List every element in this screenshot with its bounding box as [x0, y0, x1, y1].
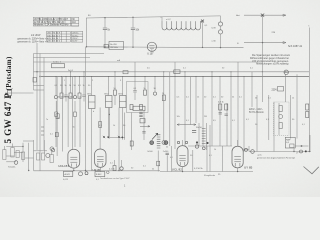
- wire x249 drop: [248, 146, 250, 152]
- electrolytic can a: [195, 145, 198, 148]
- wire drop x135: [134, 62, 136, 90]
- node bus y76 x135: [134, 76, 135, 77]
- tuner box: [109, 42, 124, 50]
- resistor R-l5: [42, 153, 45, 160]
- transformer blob: [278, 87, 284, 92]
- node bus y76 x203: [202, 76, 203, 77]
- grid cap node: [162, 141, 166, 145]
- wire x210: [209, 125, 211, 172]
- wire x290: [290, 95, 292, 139]
- wire drop D1: [55, 77, 57, 96]
- capacitor Cd3: [64, 95, 67, 97]
- capacitor Ce1: [55, 112, 58, 117]
- node l x23 y146: [22, 146, 23, 147]
- avc dimension line: [177, 124, 196, 126]
- node bus2 x40: [39, 76, 40, 77]
- node bus y71 x262.3: [262, 71, 263, 72]
- node el a: [196, 141, 198, 143]
- wire drop left end top rail: [86, 18, 88, 47]
- wire mains-ant drop: [9, 96, 11, 100]
- wire x171 drop: [171, 146, 173, 172]
- enclosure rectifier dashed: [274, 102, 290, 136]
- node bus y76 x212: [211, 76, 212, 77]
- svg-text:U 107: U 107: [147, 53, 154, 55]
- wire x113 drop: [114, 160, 116, 166]
- tube V1 UCH81: [68, 149, 80, 168]
- svg-text:UCL 82: UCL 82: [172, 168, 182, 172]
- wire x254: [256, 95, 258, 152]
- capacitor Ce2: [74, 112, 77, 117]
- svg-text:1k: 1k: [83, 85, 85, 87]
- svg-text:5k: 5k: [65, 85, 67, 87]
- wire tubeB grid feed: [99, 108, 101, 150]
- node heater rail x202.5: [202, 47, 203, 48]
- svg-text:5k: 5k: [152, 169, 154, 171]
- node bus y76 x196: [195, 76, 196, 77]
- node bus y76 x175: [174, 76, 175, 77]
- wire V3 cathode: [182, 167, 184, 172]
- node bus y76 x244: [243, 76, 244, 77]
- node antenna junction: [261, 14, 264, 17]
- wire left col d: [43, 58, 45, 151]
- wire x238: [237, 62, 239, 146]
- wire IFT3 out: [122, 108, 124, 140]
- IF transformer IFT3: [120, 96, 127, 108]
- tube V4 electrodes: [234, 157, 241, 167]
- tube V2 electrodes: [97, 157, 104, 166]
- wire x109 link: [108, 108, 110, 138]
- wire x250: [251, 72, 253, 107]
- wire x80 long: [79, 96, 81, 147]
- wire V2 cathode: [99, 167, 101, 171]
- wire x51.8 stub: [51, 151, 53, 156]
- wire y146 segment: [188, 145, 232, 147]
- node bus y71 x212: [211, 71, 212, 72]
- wire drop D3: [65, 77, 67, 95]
- resistor R-V2k: [95, 172, 105, 177]
- node supply x309: [309, 151, 310, 152]
- svg-text:Bv 410: Bv 410: [110, 44, 117, 46]
- node l x28 y170: [28, 170, 29, 171]
- wire heater rail y47: [86, 46, 244, 49]
- fuse Si bar: [284, 71, 288, 73]
- node top V3 b: [185, 141, 187, 143]
- node y146 x301: [301, 145, 303, 147]
- wire drop D7: [83, 72, 85, 95]
- node j4: [121, 137, 123, 139]
- wire left link y85.5: [34, 85, 45, 87]
- svg-text:190 165 11 7: 190 165 11 7: [47, 35, 60, 37]
- wire y146 right stub: [295, 145, 308, 147]
- svg-text:50 Hz Allstrom: 50 Hz Allstrom: [249, 111, 264, 114]
- resistor R-leftcol-box: [33, 78, 37, 83]
- lamp La1: [218, 22, 222, 26]
- node bus y76 x220: [219, 76, 220, 77]
- wire drop D4: [70, 72, 72, 93]
- node bus y71 x70.5: [70, 71, 71, 72]
- resistor R-x115: [114, 90, 117, 95]
- node j2: [107, 136, 109, 138]
- svg-text:220V: 220V: [272, 90, 278, 92]
- coil L-TBout: [107, 171, 110, 174]
- node heater rail x105: [104, 46, 105, 47]
- svg-text:1k: 1k: [292, 98, 294, 100]
- node bus y76 x61.5: [61, 76, 62, 77]
- wire earth lower: [244, 42, 283, 44]
- wire IFT1 out: [91, 109, 93, 171]
- wire drop x155: [154, 77, 156, 93]
- node heater rail x86.5: [86, 46, 87, 47]
- fuse Si: [284, 70, 288, 74]
- resistor R-x225: [225, 104, 228, 110]
- wire IFT3 feed: [122, 77, 124, 96]
- wire x68.1 long: [67, 96, 69, 147]
- wire drop D7 lower: [83, 97, 85, 101]
- wire x206.5: [206, 123, 208, 150]
- wire l-col x23: [22, 143, 24, 162]
- node bus y76 x79.5: [79, 76, 80, 77]
- wire bus y71.8: [34, 71, 310, 73]
- node bus y71 x163.8: [163, 71, 164, 72]
- svg-text:110V~: 110V~: [72, 41, 79, 43]
- wire antenna junction drop: [262, 15, 264, 72]
- node V4 out: [245, 148, 248, 151]
- switch box inner: [290, 144, 294, 148]
- node j1: [103, 136, 105, 138]
- wire x220: [219, 77, 221, 147]
- coil L-l3: [51, 149, 54, 152]
- wire rail y62: [34, 61, 263, 63]
- coupling box: [133, 106, 145, 110]
- resistor R-mid1: [113, 166, 116, 171]
- wire long x85.5: [85, 47, 87, 171]
- resistor R-V1k: [64, 171, 73, 176]
- tube U107 inner electrodes: [149, 46, 154, 51]
- node bus y71 x37: [36, 71, 37, 72]
- svg-text:1k: 1k: [214, 149, 216, 151]
- svg-text:5k: 5k: [232, 97, 234, 99]
- svg-text:0,025: 0,025: [63, 179, 69, 181]
- wire drop x115: [114, 72, 116, 90]
- wire bus y76.5: [41, 76, 309, 78]
- resistor R-in-box2: [140, 105, 143, 110]
- wire V4 top feed: [237, 140, 239, 146]
- wire rail y53.5: [34, 53, 105, 55]
- IFT2 midline: [106, 101, 113, 103]
- wire V4 cathode: [237, 168, 239, 172]
- terminal supply b: [300, 150, 303, 153]
- wire l-col x12.5 up: [12, 144, 14, 148]
- svg-text:200 170 12 8: 200 170 12 8: [47, 33, 61, 35]
- tube V3 UCL82: [177, 146, 188, 167]
- svg-text:B 842: B 842: [96, 174, 102, 176]
- node bottom x182: [182, 171, 183, 172]
- resistor Rd2: [60, 93, 63, 98]
- capacitor C-x55mid: [55, 133, 58, 137]
- wire drop D3 lower: [65, 97, 67, 101]
- capacitor C-couple1: [139, 112, 142, 114]
- node bottom x119: [118, 170, 119, 171]
- svg-text:2k: 2k: [69, 85, 71, 87]
- wire lamp chain top: [220, 16, 222, 22]
- node bus y76 x70.5: [70, 76, 71, 77]
- resistor R-series-rail: [174, 70, 180, 74]
- svg-text:Klangblende: Klangblende: [204, 175, 216, 177]
- wire drop x56 down: [55, 117, 57, 148]
- wire x62.6 long: [62, 77, 64, 152]
- node bus1 x37: [36, 71, 37, 72]
- node bus y76 x91.7: [91, 76, 92, 77]
- IF transformer IFT1: [89, 96, 96, 109]
- resistor R-l4: [37, 153, 40, 160]
- wire l-col x44.3: [43, 140, 45, 153]
- earth arrow lower: [283, 42, 286, 44]
- wire drop x163.8: [163, 72, 165, 95]
- wire x294: [293, 149, 295, 152]
- node supply x305.8: [305, 150, 307, 152]
- wire x262 lower: [261, 72, 263, 102]
- tube V1 electrodes: [70, 157, 77, 167]
- tube V2 UF89: [95, 149, 106, 167]
- variable capacitor gang a: [150, 141, 154, 145]
- wire x121 drop: [121, 160, 123, 167]
- svg-text:1k: 1k: [197, 97, 199, 99]
- tube V3 electrodes: [179, 156, 185, 166]
- node x109 y114: [109, 114, 110, 115]
- wire V1 cathode: [73, 168, 75, 170]
- coil L-det: [85, 172, 88, 175]
- wire x207: [206, 146, 208, 172]
- wire link y137.5: [109, 137, 125, 139]
- wire bottom supply rail: [249, 151, 311, 153]
- svg-text:Abweichungen ±10% zulässig: Abweichungen ±10% zulässig: [256, 63, 289, 66]
- svg-text:2k: 2k: [162, 93, 164, 95]
- svg-text:5k: 5k: [144, 88, 146, 90]
- svg-text:UCH81 UF89 UCL82 UY85 U107: UCH81 UF89 UCL82 UY85 U107: [34, 19, 69, 21]
- wire x203: [202, 77, 204, 147]
- IFT3 midline: [120, 101, 127, 103]
- svg-text:180 155 10 6: 180 155 10 6: [47, 41, 61, 43]
- capacitor C-el ladder: [202, 129, 206, 144]
- svg-text:Tonabn.: Tonabn.: [8, 167, 16, 169]
- capacitor C2: [131, 28, 135, 29]
- resistor R-on-rail: [104, 45, 108, 48]
- wire x190.5: [190, 77, 192, 125]
- node bus y71 x185: [184, 71, 185, 72]
- capacitor C-couple2: [139, 115, 142, 117]
- resistor R-x163: [162, 95, 165, 101]
- capacitor Cd7: [82, 95, 85, 97]
- resistor R-x219: [219, 104, 222, 110]
- node j3: [118, 136, 120, 138]
- svg-text:452 kHz: 452 kHz: [110, 47, 118, 49]
- node top rail C2: [132, 17, 133, 18]
- svg-text:Tonabnehmer nur bei Type P 647: Tonabnehmer nur bei Type P 647: [100, 178, 130, 180]
- resistor R-l3: [22, 152, 25, 160]
- wire x185: [184, 72, 186, 146]
- resistor R-l1: [11, 148, 14, 158]
- wire drop x145: [144, 77, 146, 91]
- wire lamp interlink: [220, 26, 222, 30]
- resistor R-rect1: [279, 106, 282, 112]
- capacitor C-el1: [192, 131, 196, 133]
- variable capacitor gang b: [164, 141, 168, 145]
- node earth lower: [262, 42, 263, 43]
- node bus y71 x285.4: [285, 71, 286, 72]
- switch box NSF: [285, 137, 295, 148]
- wire x212: [211, 72, 213, 146]
- node junction arrow: [201, 20, 204, 23]
- wire x298.6: [296, 74, 298, 138]
- wire IFT1 feed: [91, 77, 93, 96]
- node bus y71 x231: [230, 71, 231, 72]
- wire x119 long: [118, 108, 120, 171]
- wire left edge link: [6, 155, 14, 157]
- wire V3 top feed: [182, 140, 184, 146]
- svg-text:220V~ 110V~: 220V~ 110V~: [249, 109, 264, 111]
- node j ticks: [103, 136, 120, 139]
- wire x231: [230, 72, 232, 146]
- resistor R-x131: [130, 141, 133, 146]
- svg-text:0,1 5k: 0,1 5k: [109, 169, 116, 171]
- wire x310: [309, 135, 311, 152]
- svg-text:1k: 1k: [57, 118, 59, 120]
- resistor R-right1: [306, 104, 309, 110]
- svg-text:A 841: A 841: [65, 173, 71, 176]
- wire x158.2 down: [157, 151, 159, 172]
- wire mains-antenna link: [5, 92, 34, 94]
- svg-text:UY 85: UY 85: [244, 165, 253, 169]
- resistor Rd6: [78, 93, 81, 98]
- node bus y76 x84: [83, 76, 84, 77]
- resistor R-l6: [50, 155, 53, 163]
- wire antenna upper: [244, 14, 283, 16]
- wire cap C1 lower lead: [104, 30, 106, 47]
- svg-text:110V=: 110V=: [72, 35, 79, 37]
- enclosure IF amp box: [127, 82, 149, 113]
- wire x279: [278, 103, 280, 135]
- wire heater chain left feed: [160, 17, 162, 21]
- svg-text:0,1 50 5k: 0,1 50 5k: [194, 168, 204, 170]
- electrolytic can b: [202, 147, 205, 150]
- wire drop x135 low: [134, 93, 136, 100]
- lamp La2: [218, 30, 222, 34]
- node bottom x85: [85, 170, 86, 171]
- svg-text:12,6V 12,6V 50V 38V 30V 20: 12,6V 12,6V 50V 38V 30V 20: [34, 22, 65, 24]
- wire left col c: [39, 54, 41, 171]
- inductor heater chain loops: [162, 27, 200, 30]
- capacitor C-left-edge: [3, 150, 6, 160]
- wire drop D5: [74, 77, 76, 96]
- resistor R-x158: [157, 161, 160, 166]
- wire cathode rail left: [34, 170, 161, 172]
- svg-text:Heizkreis: 0,1A Siebkette 452: Heizkreis: 0,1A Siebkette 452 kHz: [34, 24, 69, 27]
- wire top rail: [86, 16, 221, 18]
- wire drop2 E1: [55, 101, 57, 112]
- wire left edge top: [4, 146, 6, 150]
- resistor R-x55: [56, 114, 59, 119]
- wire x227: [226, 103, 228, 146]
- wire drop2 E2: [74, 101, 76, 112]
- svg-text:5 GW 647 P (Potsdam): 5 GW 647 P (Potsdam): [3, 56, 13, 143]
- coil L5: [73, 96, 76, 99]
- resistor R-on-bus: [123, 71, 128, 74]
- wire cap C2 upper lead: [132, 17, 134, 27]
- wire x175 long: [174, 62, 176, 149]
- coil L-l1: [14, 161, 18, 165]
- dial cord line: [140, 125, 150, 127]
- wire IFT2 feed: [108, 77, 110, 96]
- wire x124.7: [124, 113, 126, 140]
- svg-text:2M: 2M: [204, 116, 207, 118]
- node el b: [206, 142, 208, 144]
- terminal supply a: [251, 150, 255, 154]
- resistor Rd4: [69, 93, 72, 98]
- svg-text:6,3V: 6,3V: [212, 28, 217, 30]
- svg-text:185 160 10 7: 185 160 10 7: [47, 38, 61, 40]
- wire l-link y152: [15, 151, 24, 153]
- svg-text:gemessen bei abgeschaltetem Fe: gemessen bei abgeschaltetem Fernempf.: [257, 157, 296, 160]
- wire cathode rail right: [160, 171, 253, 173]
- svg-text:h: h: [308, 26, 309, 28]
- wire l-link y141: [23, 140, 34, 142]
- svg-text:landw. 1: landw. 1: [53, 62, 62, 64]
- wire l-link y146.5: [6, 146, 23, 148]
- capacitor C-x225: [225, 114, 228, 116]
- node bus y76 x145: [144, 76, 145, 77]
- wire cap C1 upper lead: [104, 18, 106, 28]
- node bus y71 x84: [83, 71, 84, 72]
- tube V4 UY85: [232, 146, 243, 168]
- resistor R-l2: [16, 151, 19, 158]
- svg-text:5k: 5k: [73, 127, 75, 129]
- node heater rail x133: [132, 47, 133, 48]
- capacitor C-x219: [219, 113, 222, 115]
- svg-text:2x0,1: 2x0,1: [68, 70, 74, 72]
- node supply x294: [293, 151, 294, 152]
- node bottom x237: [237, 171, 238, 172]
- svg-text:gemessen b. 110V= Netz + •: gemessen b. 110V= Netz + •: [17, 40, 47, 43]
- svg-text:5k: 5k: [166, 147, 168, 149]
- resistor R-in-box1: [130, 105, 133, 110]
- coil L1: [54, 96, 57, 99]
- capacitor C-preamp: [166, 153, 169, 155]
- node V1 bottom: [73, 170, 74, 171]
- wire left link y90: [34, 89, 45, 91]
- capacitor C-x144: [142, 132, 145, 134]
- wire tubeA grid feed: [72, 77, 74, 150]
- wire x144: [143, 111, 145, 140]
- svg-text:Sch 1087-41: Sch 1087-41: [288, 45, 303, 48]
- tube U107 indicator: [147, 42, 156, 51]
- wire top rail right drop: [202, 21, 204, 47]
- table tube-lineup frame: [33, 17, 79, 26]
- wire x55.5: [56, 77, 58, 157]
- svg-text:5k: 5k: [255, 98, 257, 100]
- svg-text:1k: 1k: [113, 125, 115, 127]
- IFT1 midline: [89, 101, 96, 103]
- wire left col b: [36, 43, 38, 150]
- wire drop x115 low: [114, 95, 116, 105]
- variable capacitor ladder: [157, 135, 161, 148]
- coil L-osc: [79, 172, 83, 176]
- node bus y76 x163.8: [163, 76, 164, 77]
- svg-text:gem.: gem.: [258, 155, 263, 157]
- capacitor C-block: [140, 119, 145, 123]
- wire left col a: [33, 54, 35, 91]
- coil L-l2: [46, 154, 50, 158]
- node bus y76 x185: [184, 76, 185, 77]
